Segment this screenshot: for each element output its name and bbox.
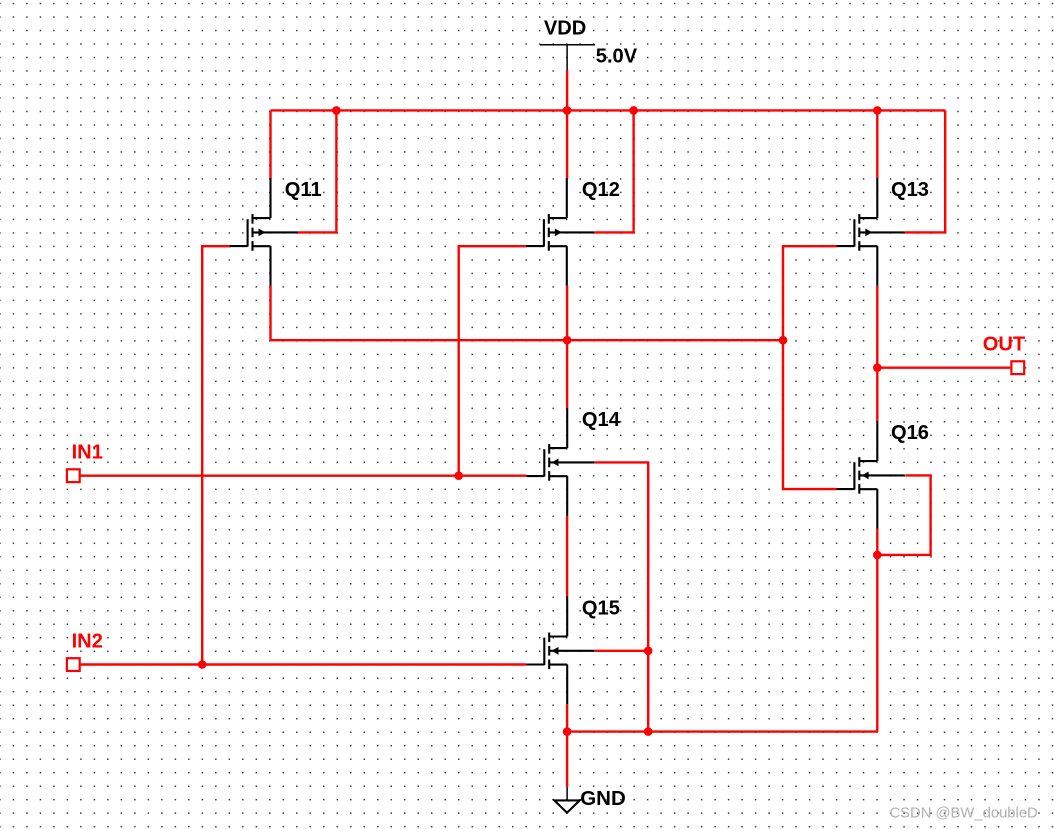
junction bus-Q13 drain xyxy=(873,106,882,115)
wire Q11 source to mid rail xyxy=(271,286,784,341)
junction mid rail-Q12 source xyxy=(563,336,572,345)
ground GND symbol xyxy=(554,787,579,813)
svg-text:CSDN @BW_doubleD: CSDN @BW_doubleD xyxy=(890,805,1038,821)
pin IN2 terminal square xyxy=(67,658,80,671)
junction Q15 bulk-Q14 bulk drop xyxy=(644,647,653,656)
svg-text:IN2: IN2 xyxy=(72,630,103,652)
wire Q16 source drop to bottom rail xyxy=(876,529,878,732)
transistor Q13 xyxy=(837,178,905,286)
svg-text:Q12: Q12 xyxy=(582,179,620,201)
junction bottom rail-Q15 source xyxy=(563,727,572,736)
svg-text:Q16: Q16 xyxy=(891,422,929,444)
svg-text:Q15: Q15 xyxy=(582,597,620,619)
wire OUT line xyxy=(877,367,1010,369)
wire GND drop xyxy=(566,732,568,788)
transistor Q16 xyxy=(837,421,905,529)
wire Q12 bulk to bus xyxy=(595,110,634,232)
junction Q16 source-bulk xyxy=(873,551,882,560)
wire Q13 drain riser xyxy=(876,110,878,178)
svg-text:IN1: IN1 xyxy=(72,441,103,463)
junction IN2-Q11 gate riser xyxy=(198,660,207,669)
wire Q15 bulk stub xyxy=(595,650,648,652)
wire Q14 drain riser xyxy=(566,340,568,408)
wire Q15 source drop xyxy=(566,704,568,731)
wire Q16 bulk loop xyxy=(877,475,930,555)
wire Q14 bulk drop to bottom rail xyxy=(595,462,648,731)
wire Q13 source to Q16 drain xyxy=(876,286,878,421)
wire Q12 source drop xyxy=(566,286,568,341)
svg-text:Q13: Q13 xyxy=(891,179,929,201)
power VDD symbol xyxy=(540,45,595,71)
wire IN1 line xyxy=(81,475,527,477)
svg-text:VDD: VDD xyxy=(544,17,586,39)
junction OUT node xyxy=(873,363,882,372)
pin OUT terminal square xyxy=(1011,361,1024,374)
wire Q11 gate to IN2 xyxy=(202,246,230,664)
wire bottom rail xyxy=(567,730,877,732)
wire VDD top bus xyxy=(271,109,946,111)
wire Q12 gate riser to IN1 xyxy=(459,246,527,476)
wire Q13 bulk to bus xyxy=(905,110,945,232)
junction mid rail-Q13 gate riser xyxy=(779,336,788,345)
wire Q11 bulk to bus xyxy=(298,110,337,232)
wire VDD riser xyxy=(566,70,568,110)
wire Q13 gate to node mid rail and Q16 gate xyxy=(783,246,837,489)
junction bus-Q11 bulk xyxy=(332,106,341,115)
junction IN1-Q12 gate riser xyxy=(454,471,463,480)
transistor Q15 xyxy=(527,597,595,705)
transistor Q11 xyxy=(230,178,298,286)
wire Q11 drain riser xyxy=(269,110,271,178)
wire IN2 line xyxy=(81,663,527,665)
svg-text:Q14: Q14 xyxy=(582,409,621,431)
svg-text:5.0V: 5.0V xyxy=(596,45,638,67)
transistor Q14 xyxy=(527,408,595,516)
svg-text:OUT: OUT xyxy=(983,333,1026,355)
wire Q14 source to Q15 drain xyxy=(566,516,568,597)
wire Q12 drain riser xyxy=(566,110,568,178)
pin IN1 terminal square xyxy=(67,469,80,482)
svg-text:GND: GND xyxy=(580,787,626,810)
junction bottom rail-Q14 bulk drop xyxy=(644,727,653,736)
junction bus-Q12 bulk xyxy=(629,106,638,115)
transistor Q12 xyxy=(526,178,594,286)
junction bus-VDD/Q12 drain xyxy=(563,106,572,115)
svg-text:Q11: Q11 xyxy=(285,179,322,201)
